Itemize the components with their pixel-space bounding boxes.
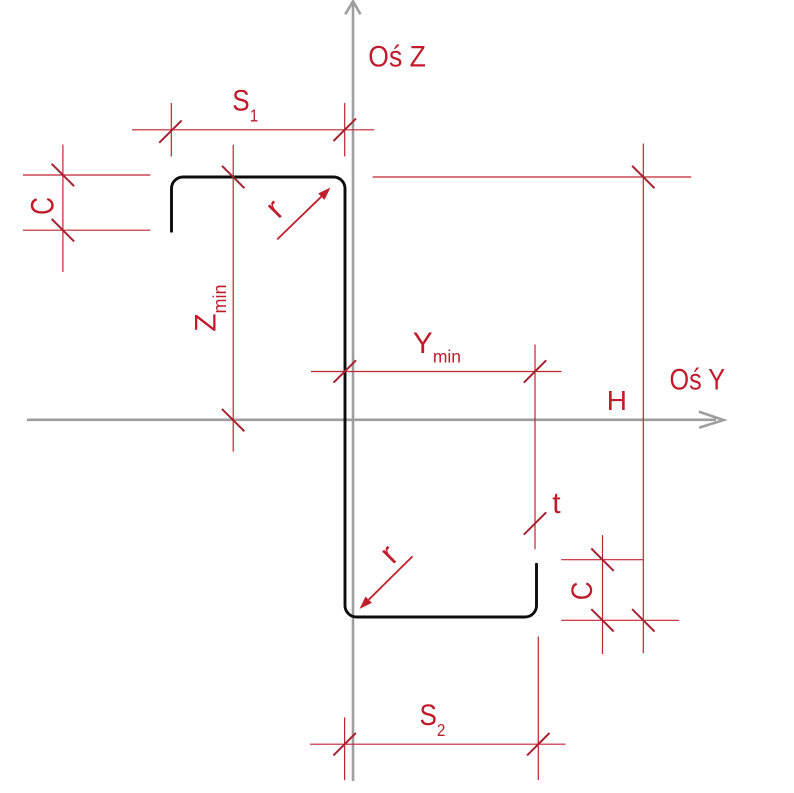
C left tick slashes <box>52 164 74 242</box>
dimension C right lines <box>561 535 679 654</box>
svg-text:H: H <box>607 385 627 416</box>
dimension S1 line <box>132 103 374 157</box>
H tick slashes <box>632 166 654 632</box>
Z_min tick slashes <box>222 166 245 432</box>
radius arrow r top <box>277 197 321 240</box>
svg-text:Oś Y: Oś Y <box>670 362 726 396</box>
S1 tick slashes <box>159 119 356 143</box>
dimension C left lines <box>23 145 150 273</box>
C right tick slashes <box>591 549 613 632</box>
S2 tick slashes <box>333 733 549 755</box>
svg-text:Oś Z: Oś Z <box>368 40 425 74</box>
radius arrow r bottom <box>369 556 413 599</box>
dimension Y_min line <box>311 345 562 550</box>
axis Oś Y (horizontal gray axis) <box>27 412 724 428</box>
axis Oś Z (vertical gray axis) <box>345 1 360 781</box>
svg-text:t: t <box>552 487 561 520</box>
dimension Z_min line <box>232 145 234 452</box>
thickness t tick slash <box>524 512 546 534</box>
dimension S2 line <box>310 637 566 781</box>
svg-text:C: C <box>25 197 61 215</box>
svg-text:C: C <box>565 581 598 600</box>
Y_min tick slashes <box>334 360 547 382</box>
Z-profile outline <box>172 177 537 617</box>
dimension H lines <box>373 144 692 654</box>
